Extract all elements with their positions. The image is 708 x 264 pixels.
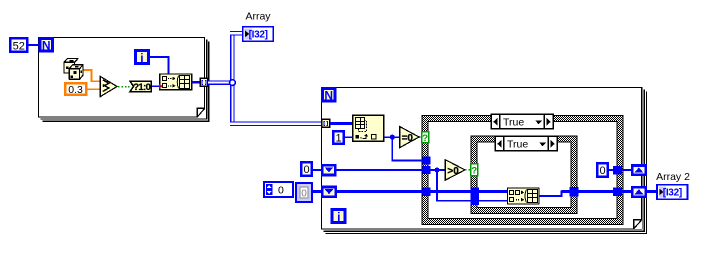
wire junction down to tunnel T0	[392, 137, 422, 160]
for loop 1 frame	[39, 38, 209, 122]
for loop 2 fold corner	[634, 220, 642, 229]
wire T2 to inner tunnel (thick)	[431, 190, 471, 193]
svg-text:0: 0	[599, 165, 605, 177]
i terminal loop 1	[135, 51, 148, 65]
tunnel T0	[423, 157, 431, 165]
wire dice to comparator	[83, 70, 100, 81]
svg-text:0: 0	[278, 185, 284, 197]
equals-zero comparator =0	[400, 127, 419, 148]
svg-text:?1:0: ?1:0	[133, 82, 150, 93]
boolean to 0,1 node ?1:0	[130, 81, 151, 93]
wire build array to tunnel	[192, 81, 201, 83]
svg-text:52: 52	[13, 40, 25, 52]
svg-text:i: i	[140, 51, 143, 65]
boolean wire >0 to inner selector	[465, 169, 470, 171]
i terminal loop 2	[332, 210, 345, 225]
left shift register (lower)	[322, 187, 335, 197]
wire inner lower tunnel to build array 2	[479, 200, 508, 202]
tunnel T2	[423, 188, 431, 197]
svg-text:N: N	[42, 39, 51, 53]
wire inner right tunnel to outer right tunnel (thick)	[579, 190, 614, 193]
wire build array 2 to inner right tunnel	[539, 192, 570, 196]
outer case selector label True	[491, 114, 553, 129]
svg-text:1: 1	[335, 133, 341, 145]
wire tunnel to index array	[330, 122, 353, 125]
constant 1	[333, 131, 343, 144]
svg-text:=0: =0	[402, 133, 414, 144]
N terminal loop 2	[322, 88, 335, 102]
input tunnel loop 2	[322, 119, 330, 127]
inner case structure border	[471, 136, 577, 213]
boolean wire =0 to selector	[419, 136, 422, 138]
tunnel loop 1	[200, 78, 207, 86]
svg-text:True: True	[503, 117, 524, 129]
outer case selector terminal	[422, 132, 429, 145]
svg-text:Array 2: Array 2	[656, 171, 690, 183]
constant 52	[10, 38, 27, 52]
greater-than-zero comparator >0	[445, 160, 465, 181]
Array indicator [I32]	[243, 27, 273, 41]
array wire loop1 to junction	[208, 80, 235, 85]
wire junction down to inner tunnel	[437, 170, 471, 201]
svg-text:[I32]: [I32]	[249, 30, 268, 41]
greater-or-equal comparator	[100, 76, 117, 96]
coercion dot	[159, 84, 163, 89]
wire ?1:0 to build array	[152, 85, 160, 87]
outer right tunnel (lower)	[613, 187, 622, 196]
inner case selector terminal	[471, 164, 478, 177]
svg-text:True: True	[507, 139, 528, 151]
right shift register (upper)	[632, 166, 645, 175]
wire tunnel to right shift register	[622, 169, 632, 171]
left shift register (upper)	[322, 165, 335, 175]
wire shift register to tunnel T1	[337, 169, 423, 171]
wire 0.3 to comparator	[87, 88, 100, 90]
for loop 2 frame	[322, 88, 647, 234]
wire 0 to outer right tunnel	[609, 169, 614, 171]
random number dice icon	[64, 59, 83, 80]
wire junction	[230, 80, 236, 86]
wire array constant to lower shift register	[313, 190, 322, 193]
svg-text:?: ?	[422, 133, 428, 144]
boolean wire comparator to ?1:0	[118, 86, 130, 88]
constant 0 (left)	[301, 162, 311, 176]
for loop 1 fold corner	[197, 108, 205, 117]
wire shift register to Array 2 indicator (thick)	[647, 190, 657, 193]
build array node 2	[508, 188, 540, 204]
Array 2 indicator [I32]	[657, 185, 687, 199]
wire T1 to greater-than-zero	[431, 169, 446, 171]
outer right tunnel (upper)	[613, 166, 622, 175]
svg-text:0.3: 0.3	[68, 84, 83, 96]
inner tunnel (upper, array)	[471, 187, 480, 196]
wire 0 to left shift register	[313, 169, 322, 171]
svg-text:i: i	[337, 210, 340, 224]
wire lower shift register to tunnel T2	[337, 190, 423, 193]
svg-text:[I32]: [I32]	[663, 188, 682, 199]
wire i to build array	[150, 57, 169, 74]
svg-text:N: N	[324, 89, 333, 103]
svg-text:Array: Array	[245, 11, 271, 23]
N terminal loop 1	[40, 38, 53, 52]
inner case selector label True	[495, 136, 557, 151]
svg-text:?: ?	[471, 166, 477, 177]
constant 0.3	[65, 83, 86, 96]
array constant (element)	[296, 183, 312, 202]
build array node U1	[160, 74, 192, 90]
junction dot	[390, 135, 395, 140]
index array node	[353, 115, 384, 141]
array wire junction up to Array indicator	[230, 33, 242, 84]
inner right tunnel	[570, 187, 579, 196]
svg-text:0: 0	[303, 164, 309, 176]
array wire junction down to loop 2	[230, 82, 321, 124]
junction dot	[435, 168, 440, 173]
svg-text:0: 0	[301, 188, 307, 199]
constant 0 (right)	[597, 163, 607, 177]
tunnel T1	[423, 166, 431, 174]
wire index array to =0	[384, 136, 400, 138]
wire inner tunnel to build array 2 (thick)	[479, 190, 508, 193]
outer case structure border	[422, 116, 623, 225]
wire 1 to index array	[344, 136, 353, 138]
svg-text:>0: >0	[447, 166, 459, 177]
inner tunnel (lower, element)	[471, 196, 480, 205]
right shift register (lower)	[632, 187, 645, 196]
wire 52 to N	[29, 44, 39, 46]
wire outer tunnel to right shift register (thick)	[622, 190, 632, 193]
array constant (index display)	[264, 182, 293, 197]
